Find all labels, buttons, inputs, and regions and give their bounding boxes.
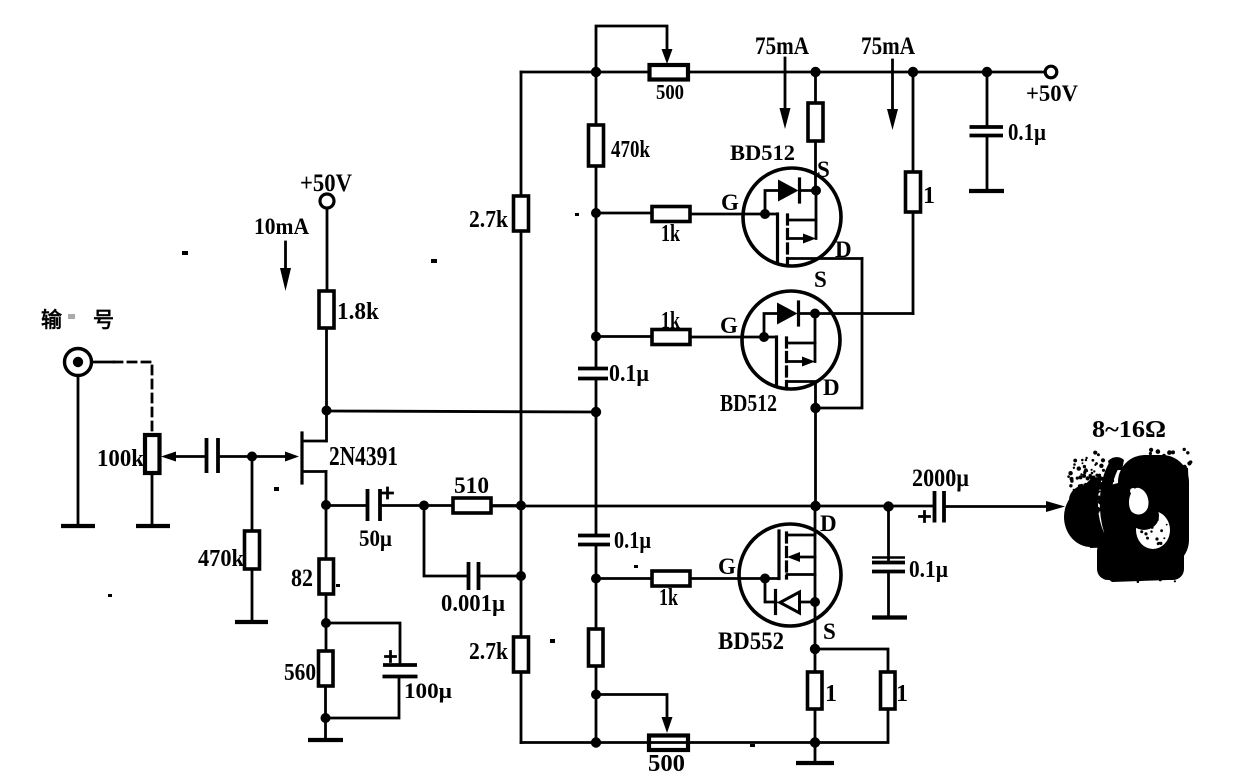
resistor (unlabeled, above Q2 source) <box>808 103 823 141</box>
svg-text:G: G <box>721 190 739 215</box>
wire: S resistor to Q2 source <box>814 141 817 191</box>
node: 596 rail / 1k upper <box>591 208 601 218</box>
input jack J1 <box>65 349 92 376</box>
resistor 1k (upper gate) <box>596 207 690 222</box>
node: after C2 <box>419 501 429 511</box>
wire: bottom rail <box>521 741 816 744</box>
wire: output node to 0.1u <box>887 507 890 560</box>
resistor 2.7k (upper) <box>514 196 529 231</box>
capacitor C6 0.1u (lower mid) <box>578 536 610 545</box>
resistor 1k (middle gate) <box>596 330 690 345</box>
wire: jack ground lead <box>77 376 80 525</box>
resistor 470k (gate bias) <box>245 531 260 569</box>
capacitor C9 0.1u (output) <box>872 558 905 572</box>
svg-text:G: G <box>718 554 736 579</box>
ground (source network) <box>308 738 343 742</box>
svg-text:1.8k: 1.8k <box>337 299 380 325</box>
svg-text:1k: 1k <box>661 308 680 334</box>
node: 596 rail / 1k lower <box>591 574 601 584</box>
wire: 82 to node <box>325 594 328 623</box>
svg-text:8~16Ω: 8~16Ω <box>1092 417 1166 443</box>
wire: 510 to 521 rail <box>491 504 521 507</box>
node: top rail / 1 ohm <box>908 67 918 77</box>
svg-text:1k: 1k <box>659 585 678 611</box>
wire: top +50V rail <box>521 71 1045 74</box>
wire: JFET source down to source node <box>325 472 328 506</box>
svg-text:BD512: BD512 <box>720 391 777 417</box>
wire: wiper to 500 bottom <box>596 695 673 734</box>
wire: 0.1u to ground <box>986 136 989 190</box>
svg-text:BD512: BD512 <box>730 140 795 165</box>
wire: 560 to bottom node <box>324 686 327 718</box>
svg-text:470k: 470k <box>611 137 651 163</box>
ground (output 0.1u) <box>872 615 907 619</box>
ground (output stage) <box>796 761 834 765</box>
svg-text:BD552: BD552 <box>718 628 784 655</box>
wire: bypass top to 100u <box>326 623 400 665</box>
node: 596 rail / long wire <box>591 407 601 417</box>
capacitor C2 50u <box>368 488 393 521</box>
svg-text:2000µ: 2000µ <box>912 465 969 492</box>
resistor 1k (lower gate) <box>596 571 690 586</box>
node: top rail / S resistor <box>810 67 820 77</box>
svg-text:1: 1 <box>923 183 935 209</box>
potentiometer 100k <box>145 435 206 473</box>
wire: rail to 0.1u top right <box>986 72 989 127</box>
stray speck marks <box>108 213 755 747</box>
resistor (unlabeled, 596 rail) <box>589 629 604 666</box>
wire: output rail left of 510 handled above; continue to arrow <box>944 505 1048 508</box>
svg-text:100k: 100k <box>97 446 145 472</box>
wire: node down and C3 row <box>424 506 468 577</box>
node: Q4 source node <box>810 644 820 654</box>
speaker speckle texture <box>1067 448 1193 583</box>
resistor 82 <box>319 559 334 594</box>
svg-text:75mA: 75mA <box>861 33 915 60</box>
label: input signal (Chinese) <box>41 308 114 332</box>
svg-text:50µ: 50µ <box>359 526 392 551</box>
wire: Q2 drain down to D node <box>816 259 863 409</box>
resistor 1.8k <box>319 291 334 328</box>
capacitor C1 (input coupling) <box>207 438 219 473</box>
node: 510 / 521 rail <box>516 501 526 511</box>
wire: gate node down to 470k <box>251 461 254 531</box>
transistor Q2 BD512 (upper) <box>689 168 862 266</box>
wire: Q3 source to 1 ohm <box>815 312 913 315</box>
wire: 1.8k to drain node <box>325 328 328 441</box>
svg-text:+50V: +50V <box>1026 81 1078 106</box>
wire: 100u bottom to node <box>326 677 400 719</box>
svg-text:1k: 1k <box>661 221 680 247</box>
wire: jack lead <box>92 361 115 364</box>
svg-text:0.1µ: 0.1µ <box>1008 120 1046 146</box>
svg-text:75mA: 75mA <box>755 33 809 60</box>
wire: top rail to S resistor <box>814 72 817 103</box>
terminal: +50V right <box>1045 66 1057 78</box>
node: 560 bottom <box>321 713 331 723</box>
resistor 510 <box>424 498 491 513</box>
wire: C2 to node <box>380 504 424 507</box>
terminal: +50V left <box>320 194 334 208</box>
node: 82/560 junction <box>321 618 331 628</box>
svg-text:470k: 470k <box>198 546 245 572</box>
node: 596/top rail <box>591 67 601 77</box>
wire: gate arrow into JFET <box>252 452 299 462</box>
svg-text:2.7k: 2.7k <box>469 207 509 233</box>
capacitor C7 2000u <box>920 491 945 523</box>
wire: top rail to 1 ohm <box>912 72 915 172</box>
svg-text:D: D <box>835 237 852 262</box>
svg-text:2N4391: 2N4391 <box>329 441 398 471</box>
svg-text:0.1µ: 0.1µ <box>909 557 948 583</box>
wire: source node down to 82 <box>325 505 328 559</box>
svg-text:S: S <box>817 157 830 182</box>
arrow: output to speaker <box>1046 501 1065 512</box>
node: output node <box>810 501 820 511</box>
node: output / 0.1u <box>883 501 893 511</box>
svg-text:10mA: 10mA <box>254 214 309 239</box>
node: C3 / 521 rail <box>516 571 526 581</box>
svg-text:100µ: 100µ <box>404 678 452 703</box>
node: bottom rail junction <box>810 737 820 747</box>
wire: +50V to 1.8k <box>326 208 329 291</box>
wire: 596 vertical rail segments <box>595 72 598 743</box>
wire: 470k to ground <box>251 569 254 619</box>
node: 596 rail / 1k middle <box>591 332 601 342</box>
ground (top right 0.1u) <box>969 189 1004 193</box>
potentiometer 500 (top) <box>650 65 689 80</box>
svg-text:1: 1 <box>896 681 908 707</box>
ground (input jack) <box>61 524 95 528</box>
transistor Q3 BD512 (middle) <box>689 291 840 408</box>
svg-text:S: S <box>814 267 827 292</box>
svg-text:0.001µ: 0.001µ <box>441 591 505 617</box>
speaker (8-16 ohm loudspeaker picture) <box>1064 455 1189 582</box>
arrow: 10mA current <box>280 242 291 291</box>
svg-text:0.1µ: 0.1µ <box>609 361 649 387</box>
resistor 2.7k (lower) <box>514 637 529 672</box>
node: top rail / 0.1u <box>982 67 992 77</box>
svg-text:82: 82 <box>291 565 313 592</box>
wire: dashed link jack to pot <box>114 362 152 430</box>
wire: C1 to gate node <box>218 455 252 458</box>
svg-text:1: 1 <box>825 681 837 707</box>
wire: bottom node to ground <box>814 743 817 762</box>
node: gate node <box>247 452 257 462</box>
resistor 560 <box>319 623 334 686</box>
wire: pot bottom to ground <box>151 473 154 524</box>
svg-text:2.7k: 2.7k <box>469 639 509 665</box>
wire: output rail <box>491 505 935 508</box>
svg-text:510: 510 <box>454 473 489 498</box>
wire: 1 ohm down to Q3 source wire <box>912 212 915 314</box>
wire: source node to right 1 ohm <box>815 649 888 672</box>
resistor 470k (on 596 rail) <box>589 125 604 166</box>
svg-text:D: D <box>823 375 840 400</box>
capacitor C5 0.1u (upper mid) <box>578 369 608 379</box>
arrow: 75mA right <box>887 60 898 130</box>
capacitor C4 100u <box>383 652 418 677</box>
wire: C3 to 521 rail <box>479 575 522 578</box>
potentiometer 500 (bottom) <box>649 736 688 751</box>
node: D junction <box>810 403 820 413</box>
capacitor C3 0.001u <box>469 562 479 590</box>
node: 596 rail / bottom wiper <box>591 690 601 700</box>
ground (470k) <box>235 620 268 624</box>
capacitor C8 0.1u (top right) <box>970 127 1004 136</box>
resistor 1 (right emitter) <box>881 672 896 709</box>
svg-text:500: 500 <box>656 80 684 104</box>
resistor 1 (upper) <box>906 172 921 212</box>
svg-text:G: G <box>720 313 738 338</box>
resistor 1 (left emitter) <box>808 672 823 709</box>
wire: D junction to output node <box>814 408 817 506</box>
node: 596 / bottom rail <box>591 737 601 747</box>
ground (100k pot) <box>136 524 170 528</box>
wire: bottom node to ground <box>324 718 327 738</box>
svg-text:输: 输 <box>41 308 63 332</box>
wire: drain node across to 596 rail <box>327 411 597 412</box>
wire: right 1 ohm to bottom rail <box>815 709 888 743</box>
transistor Q1 2N4391 (JFET) <box>302 433 326 483</box>
svg-text:500: 500 <box>648 751 685 777</box>
svg-text:号: 号 <box>93 308 114 332</box>
wire: wiper loop to 500 top <box>596 26 673 72</box>
svg-text:560: 560 <box>284 660 316 686</box>
node: drain node <box>322 406 332 416</box>
node: source node <box>321 500 331 510</box>
svg-text:0.1µ: 0.1µ <box>614 528 651 554</box>
wire: 0.1u to ground <box>887 572 890 616</box>
svg-text:D: D <box>820 511 837 536</box>
wire: 521 vertical rail <box>520 72 523 743</box>
arrow: 75mA left <box>780 58 791 129</box>
transistor Q4 BD552 <box>689 506 841 743</box>
svg-text:S: S <box>823 619 836 644</box>
wire: source node to C2 <box>326 504 367 507</box>
